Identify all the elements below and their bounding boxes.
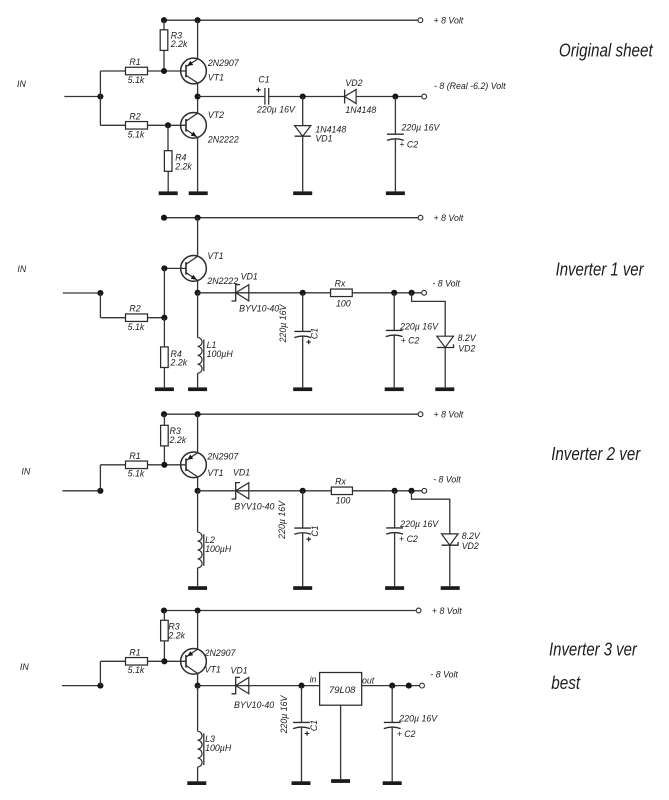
- svg-text:100: 100: [336, 298, 351, 308]
- svg-text:5.1k: 5.1k: [128, 75, 145, 85]
- svg-text:Inverter 1 ver: Inverter 1 ver: [556, 260, 645, 280]
- resistor R4: [167, 125, 169, 150]
- wire input vertical: [99, 293, 101, 318]
- svg-text:100µH: 100µH: [207, 349, 234, 359]
- svg-text:5.1k: 5.1k: [128, 469, 145, 479]
- ground C2: [383, 781, 402, 785]
- +8V terminal: [418, 215, 423, 220]
- diode VD1 BYV10-40: [236, 285, 249, 301]
- svg-text:+ 8 Volt: + 8 Volt: [434, 16, 464, 26]
- svg-text:R2: R2: [129, 111, 140, 121]
- ground C2: [386, 191, 405, 195]
- capacitor C1 220u: [302, 491, 304, 528]
- svg-text:220µ 16V: 220µ 16V: [277, 500, 287, 540]
- ground L2: [188, 586, 207, 590]
- wire input vertical: [99, 71, 101, 125]
- svg-text:Rx: Rx: [335, 278, 346, 288]
- label C1: [305, 731, 310, 736]
- wire C1 to VD2: [269, 96, 345, 98]
- svg-text:in: in: [310, 674, 317, 684]
- node rail-R3 junction: [161, 607, 167, 613]
- resistor R1: [126, 658, 148, 666]
- svg-text:VD2: VD2: [462, 541, 479, 551]
- svg-text:+ 8 Volt: + 8 Volt: [434, 213, 464, 223]
- svg-text:2N2222: 2N2222: [206, 276, 238, 286]
- zener VD2 8.2V: [437, 336, 454, 347]
- IN wire: [63, 292, 101, 294]
- capacitor C1 220u: [264, 88, 266, 105]
- svg-text:R1: R1: [129, 451, 140, 461]
- IN wire: [63, 490, 101, 492]
- svg-text:VD2: VD2: [458, 343, 475, 353]
- wire to zener: [412, 491, 450, 534]
- diode VD1 BYV10-40: [236, 678, 249, 694]
- wire R1 row: [100, 660, 125, 662]
- ground C1: [293, 586, 312, 590]
- transistor VT1 2N2222: [181, 256, 207, 282]
- svg-text:BYV10-40: BYV10-40: [234, 502, 274, 512]
- svg-text:220µ 16V: 220µ 16V: [399, 519, 439, 529]
- wire regulator ground: [340, 705, 342, 779]
- svg-text:2N2222: 2N2222: [207, 135, 239, 145]
- wire to zener: [412, 293, 446, 336]
- svg-text:100: 100: [336, 495, 351, 505]
- svg-text:R1: R1: [129, 57, 140, 67]
- svg-text:5.1k: 5.1k: [128, 130, 145, 140]
- svg-text:BYV10-40: BYV10-40: [234, 700, 274, 710]
- node zener junction: [409, 290, 415, 296]
- svg-text:- 8 Volt: - 8 Volt: [432, 278, 460, 288]
- resistor R2: [126, 314, 148, 322]
- svg-text:VD2: VD2: [345, 78, 362, 88]
- ground VD2: [435, 387, 454, 391]
- +8V rail wire: [164, 610, 416, 612]
- node C1 junction: [300, 488, 306, 494]
- svg-text:+ 8 Volt: + 8 Volt: [432, 606, 462, 616]
- wire VD2 to output: [356, 96, 422, 98]
- svg-text:Inverter 3 ver: Inverter 3 ver: [549, 640, 638, 660]
- svg-text:best: best: [551, 673, 581, 693]
- svg-text:VT1: VT1: [205, 664, 221, 674]
- svg-text:+ C2: + C2: [399, 534, 418, 544]
- svg-text:C1: C1: [309, 720, 319, 731]
- node C1 junction: [300, 290, 306, 296]
- node R1-R3-base junction: [161, 462, 167, 468]
- resistor Rx: [331, 487, 352, 495]
- diode VD2 1N4148: [345, 90, 357, 104]
- node base junction: [161, 265, 167, 271]
- svg-text:VD1: VD1: [315, 133, 332, 143]
- ground L1: [188, 387, 207, 391]
- label C1: [306, 340, 311, 345]
- inductor L2 100uH: [197, 491, 199, 532]
- svg-text:2N2907: 2N2907: [204, 648, 237, 658]
- +8V rail wire: [164, 413, 418, 415]
- ground VT2: [189, 191, 208, 195]
- wire base to R2 junction: [163, 268, 165, 317]
- node emitter junction: [195, 290, 201, 296]
- node R1-R3-base junction: [161, 68, 167, 74]
- svg-text:C1: C1: [310, 525, 320, 536]
- inductor L3 100uH: [197, 686, 199, 732]
- label C1: [306, 537, 311, 542]
- node collector junction: [195, 683, 201, 689]
- svg-text:Rx: Rx: [335, 476, 346, 486]
- node IN junction: [97, 290, 103, 296]
- svg-text:220µ 16V: 220µ 16V: [398, 713, 438, 723]
- transistor VT1 2N2907: [181, 648, 207, 674]
- svg-text:2.2k: 2.2k: [174, 161, 192, 171]
- svg-text:220µ 16V: 220µ 16V: [401, 123, 441, 133]
- node rail-R3 junction: [161, 411, 167, 417]
- svg-text:VT2: VT2: [208, 110, 224, 120]
- transistor VT2 2N2222: [181, 112, 207, 138]
- ground C2: [385, 387, 404, 391]
- resistor Rx: [331, 289, 353, 297]
- svg-text:VT1: VT1: [207, 251, 223, 261]
- wire R1 row: [100, 464, 125, 466]
- node C2 junction: [389, 683, 395, 689]
- wire regulator out: [362, 685, 420, 687]
- svg-text:5.1k: 5.1k: [128, 322, 145, 332]
- svg-text:8.2V: 8.2V: [462, 531, 481, 541]
- svg-text:2.2k: 2.2k: [167, 630, 185, 640]
- node rail-VT1 junction: [195, 411, 201, 417]
- wire node to C1: [198, 96, 265, 98]
- svg-text:IN: IN: [17, 264, 26, 274]
- node rail-VT1 junction: [195, 17, 201, 23]
- resistor R2: [126, 122, 148, 130]
- node C1 junction: [298, 683, 304, 689]
- resistor R3: [163, 20, 165, 30]
- resistor R3: [163, 611, 165, 621]
- +8V terminal: [416, 608, 421, 613]
- svg-text:1N4148: 1N4148: [345, 105, 376, 115]
- +8V terminal: [418, 412, 423, 417]
- svg-text:100µH: 100µH: [205, 544, 232, 554]
- +8V rail wire: [164, 217, 418, 219]
- node rail left dot: [161, 215, 167, 221]
- node zener junction: [408, 488, 414, 494]
- diode VD1 1N4148: [302, 97, 304, 126]
- svg-text:VD1: VD1: [233, 468, 250, 478]
- node VD1 junction: [300, 93, 306, 99]
- output terminal: [420, 683, 425, 688]
- svg-text:C1: C1: [258, 75, 269, 85]
- svg-text:IN: IN: [17, 79, 26, 89]
- svg-text:R2: R2: [129, 304, 140, 314]
- node IN junction: [97, 93, 103, 99]
- wire input vertical: [99, 465, 101, 491]
- wire output row: [198, 292, 422, 294]
- svg-text:out: out: [362, 676, 375, 686]
- svg-text:- 8 Volt: - 8 Volt: [433, 475, 461, 485]
- svg-text:220µ 16V: 220µ 16V: [256, 104, 296, 114]
- svg-text:VT1: VT1: [207, 468, 223, 478]
- node R1-R3-base junction: [161, 658, 167, 664]
- node R2-R4 junction: [161, 315, 167, 321]
- wire R2 row: [100, 317, 125, 319]
- ground C2: [385, 586, 404, 590]
- transistor VT1 2N2907: [181, 452, 207, 478]
- wire node to regulator: [198, 685, 320, 687]
- svg-text:2.2k: 2.2k: [170, 358, 188, 368]
- svg-text:R1: R1: [129, 647, 140, 657]
- capacitor C2 220u: [393, 293, 395, 331]
- output terminal: [422, 290, 427, 295]
- svg-text:VT1: VT1: [208, 73, 224, 83]
- capacitor C2 220u: [391, 686, 393, 723]
- wire VT1 base: [164, 267, 186, 269]
- svg-text:- 8 Volt: - 8 Volt: [430, 669, 458, 679]
- capacitor C2 220u: [394, 97, 396, 135]
- svg-text:79L08: 79L08: [329, 685, 356, 696]
- svg-text:220µ 16V: 220µ 16V: [278, 303, 288, 343]
- wire R2 row: [100, 124, 125, 126]
- svg-text:- 8 (Real -6.2) Volt: - 8 (Real -6.2) Volt: [434, 81, 506, 91]
- ground C1: [293, 387, 312, 391]
- svg-text:VD1: VD1: [231, 666, 248, 676]
- node C2 junction: [392, 488, 398, 494]
- svg-text:C1: C1: [310, 328, 320, 339]
- transistor VT1 2N2907: [181, 58, 207, 84]
- output terminal: [422, 488, 427, 493]
- svg-text:Original sheet: Original sheet: [559, 40, 654, 60]
- inductor L1 100uH: [197, 293, 199, 338]
- output terminal: [422, 94, 427, 99]
- node IN junction: [97, 488, 103, 494]
- IN wire: [64, 96, 100, 98]
- svg-text:2.2k: 2.2k: [170, 39, 188, 49]
- svg-text:+ C2: + C2: [399, 140, 418, 150]
- wire VT2 emitter: [197, 137, 199, 191]
- svg-text:+ C2: + C2: [397, 729, 416, 739]
- wire input vertical: [99, 661, 101, 685]
- svg-text:5.1k: 5.1k: [128, 665, 145, 675]
- svg-text:2N2907: 2N2907: [206, 451, 239, 461]
- capacitor C1 220u: [301, 686, 303, 723]
- node C2 junction: [392, 93, 398, 99]
- svg-text:VD1: VD1: [241, 271, 258, 281]
- node rail-R3 junction: [161, 17, 167, 23]
- node C2 junction: [391, 290, 397, 296]
- svg-text:+ C2: + C2: [401, 335, 420, 345]
- ground VD1: [293, 191, 312, 195]
- resistor R1: [126, 67, 148, 75]
- node collector junction: [195, 488, 201, 494]
- wire R1 row: [100, 70, 125, 72]
- node rail-VT1 junction: [195, 215, 201, 221]
- node IN junction: [97, 683, 103, 689]
- ground L3: [187, 781, 206, 785]
- +8V terminal: [418, 18, 423, 23]
- node rail-VT1 junction: [195, 607, 201, 613]
- ground VD2: [441, 586, 460, 590]
- capacitor C2 220u: [394, 491, 396, 528]
- capacitor C1 220u: [302, 293, 304, 332]
- wire output row: [198, 490, 422, 492]
- zener VD2 8.2V: [442, 534, 459, 545]
- svg-text:2.2k: 2.2k: [169, 435, 187, 445]
- node R2-R4 junction: [165, 122, 171, 128]
- ground regulator: [331, 779, 350, 783]
- resistor R1: [126, 461, 148, 469]
- svg-text:+ 8 Volt: + 8 Volt: [434, 410, 464, 420]
- resistor R4: [163, 318, 165, 347]
- svg-text:220µ 16V: 220µ 16V: [279, 694, 289, 734]
- +8V rail wire: [164, 19, 418, 21]
- ground C1: [292, 781, 311, 785]
- node output dot: [406, 683, 412, 689]
- ground R4: [155, 387, 174, 391]
- svg-text:IN: IN: [21, 466, 30, 476]
- svg-text:8.2V: 8.2V: [458, 333, 477, 343]
- diode VD1 BYV10-40: [236, 483, 249, 499]
- svg-text:Inverter 2 ver: Inverter 2 ver: [551, 444, 641, 464]
- resistor R3: [163, 414, 165, 425]
- svg-text:220µ 16V: 220µ 16V: [399, 321, 439, 331]
- node VT1-VT2 junction: [195, 93, 201, 99]
- IN wire: [62, 685, 101, 687]
- svg-text:IN: IN: [20, 662, 29, 672]
- svg-text:100µH: 100µH: [205, 743, 232, 753]
- svg-text:BYV10-40: BYV10-40: [239, 303, 279, 313]
- ground R4: [159, 191, 178, 195]
- regulator U1 79L08: [320, 673, 362, 706]
- svg-text:2N2907: 2N2907: [207, 58, 240, 68]
